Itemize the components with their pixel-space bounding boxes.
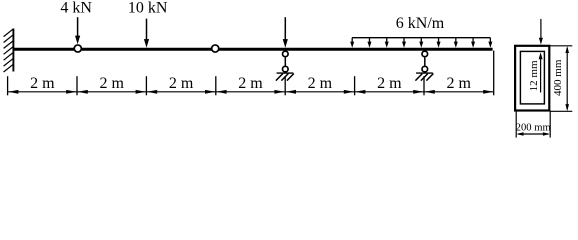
svg-text:2 m: 2 m	[99, 75, 124, 92]
svg-text:4 kN: 4 kN	[60, 0, 92, 17]
200 mm dimension line	[516, 132, 550, 136]
dimension labels 2 m	[30, 75, 471, 92]
roller (pendulum) support 2	[415, 51, 433, 80]
400 mm dimension line	[565, 46, 569, 111]
extension line top right	[550, 45, 572, 47]
wall thickness leader with up arrow	[539, 52, 543, 92]
hinge circle mid-beam	[212, 45, 219, 52]
dimension row: ticks	[8, 51, 494, 96]
beam	[13, 48, 492, 51]
svg-text:2 m: 2 m	[308, 75, 333, 92]
wall thickness arrow from above	[539, 19, 543, 45]
fixed support wall at left	[12, 29, 14, 72]
hinge circle at 4 kN	[74, 45, 81, 52]
dimension line	[8, 91, 494, 93]
svg-text:2 m: 2 m	[238, 75, 263, 92]
extension line bottom right	[550, 110, 572, 112]
svg-text:400 mm: 400 mm	[552, 59, 564, 96]
extension line bottom right (200 mm)	[549, 111, 551, 138]
svg-text:2 m: 2 m	[169, 75, 194, 92]
cross-section outer rectangle	[515, 46, 549, 111]
svg-text:10 kN: 10 kN	[128, 0, 168, 17]
arrow 4 kN	[75, 17, 80, 44]
svg-text:12 mm: 12 mm	[528, 60, 540, 91]
svg-text:2 m: 2 m	[446, 75, 471, 92]
svg-text:2 m: 2 m	[377, 75, 402, 92]
distributed load line	[352, 37, 490, 39]
distributed load arrows	[350, 38, 492, 48]
wall hatching	[4, 29, 14, 72]
roller (pendulum) support 1	[276, 51, 294, 80]
unlabeled arrow at first roller support	[283, 17, 288, 48]
svg-text:2 m: 2 m	[30, 75, 55, 92]
extension line bottom left (200 mm)	[515, 111, 517, 138]
svg-text:200 mm: 200 mm	[516, 122, 552, 133]
arrow 10 kN	[144, 19, 149, 48]
svg-text:6 kN/m: 6 kN/m	[396, 15, 445, 32]
cross-section inner rectangle	[520, 51, 544, 104]
dimension arrowheads	[8, 90, 493, 94]
